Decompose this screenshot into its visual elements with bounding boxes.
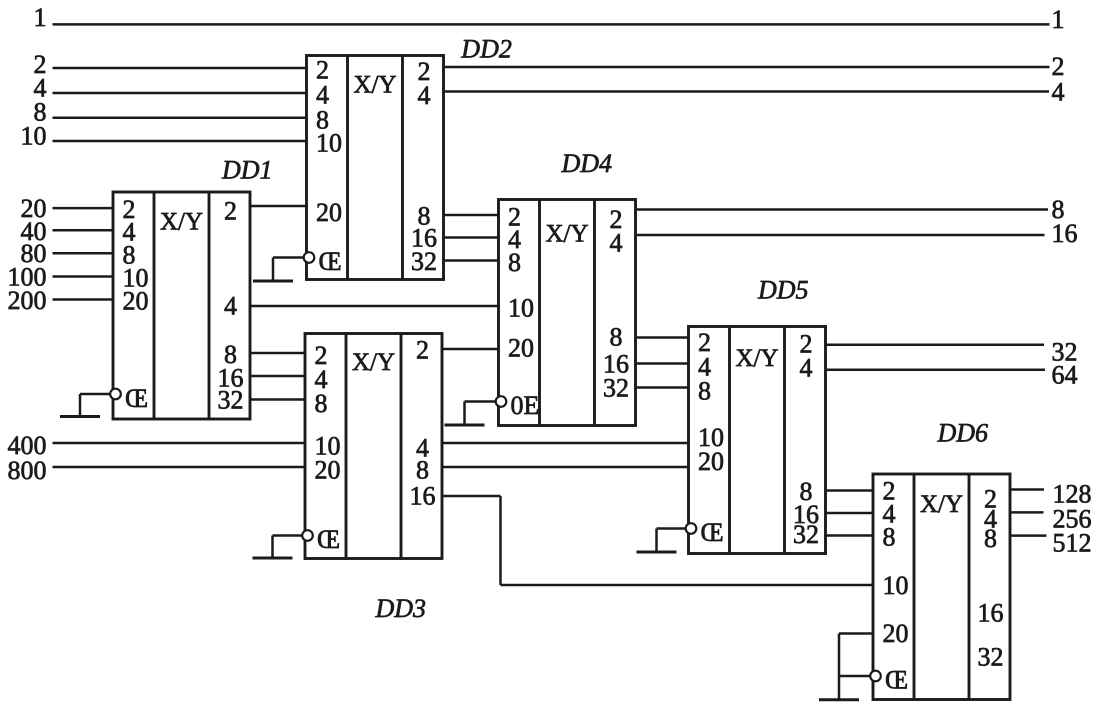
svg-text:Œ: Œ — [885, 666, 908, 695]
svg-text:20: 20 — [883, 619, 909, 648]
svg-text:Œ: Œ — [701, 518, 724, 547]
svg-text:8: 8 — [416, 456, 429, 485]
svg-text:4: 4 — [224, 292, 237, 321]
svg-text:800: 800 — [8, 456, 47, 485]
svg-text:2: 2 — [416, 336, 429, 365]
svg-text:2: 2 — [1052, 52, 1065, 81]
svg-text:20: 20 — [698, 447, 724, 476]
svg-text:8: 8 — [984, 524, 997, 553]
svg-text:8: 8 — [883, 523, 896, 552]
svg-text:X/Y: X/Y — [353, 72, 396, 99]
svg-text:DD3: DD3 — [375, 594, 427, 623]
svg-text:8: 8 — [698, 377, 711, 406]
svg-text:Œ: Œ — [125, 384, 148, 413]
svg-text:200: 200 — [8, 286, 47, 315]
svg-text:4: 4 — [800, 353, 813, 382]
svg-text:16: 16 — [410, 482, 436, 511]
svg-text:10: 10 — [508, 294, 534, 323]
svg-text:20: 20 — [508, 334, 534, 363]
svg-text:0E: 0E — [511, 391, 540, 420]
svg-text:512: 512 — [1053, 529, 1092, 558]
svg-text:1: 1 — [34, 3, 47, 32]
svg-text:20: 20 — [123, 287, 149, 316]
svg-text:DD4: DD4 — [561, 149, 613, 178]
svg-text:X/Y: X/Y — [735, 345, 778, 372]
svg-text:32: 32 — [978, 643, 1004, 672]
svg-text:1: 1 — [1052, 5, 1065, 34]
svg-text:32: 32 — [411, 247, 437, 276]
svg-text:Œ: Œ — [317, 525, 340, 554]
svg-text:X/Y: X/Y — [352, 349, 395, 376]
svg-text:20: 20 — [315, 456, 341, 485]
svg-text:DD1: DD1 — [221, 156, 273, 185]
svg-text:X/Y: X/Y — [545, 221, 588, 248]
svg-text:16: 16 — [978, 599, 1004, 628]
svg-text:16: 16 — [1052, 219, 1078, 248]
svg-text:10: 10 — [316, 128, 342, 157]
svg-text:DD5: DD5 — [757, 276, 809, 305]
svg-text:DD6: DD6 — [937, 419, 989, 448]
svg-text:Œ: Œ — [319, 247, 342, 276]
svg-text:32: 32 — [218, 386, 244, 415]
svg-text:10: 10 — [21, 122, 47, 151]
svg-text:10: 10 — [883, 571, 909, 600]
svg-text:X/Y: X/Y — [920, 491, 963, 518]
svg-text:20: 20 — [316, 198, 342, 227]
svg-text:8: 8 — [315, 389, 328, 418]
svg-text:32: 32 — [793, 520, 819, 549]
svg-text:DD2: DD2 — [460, 34, 512, 63]
svg-text:64: 64 — [1052, 360, 1078, 389]
svg-text:8: 8 — [610, 323, 623, 352]
svg-text:8: 8 — [508, 248, 521, 277]
svg-text:2: 2 — [224, 197, 237, 226]
svg-text:32: 32 — [603, 374, 629, 403]
svg-text:X/Y: X/Y — [160, 209, 203, 236]
svg-text:4: 4 — [418, 81, 431, 110]
svg-text:4: 4 — [1052, 78, 1065, 107]
svg-text:4: 4 — [610, 229, 623, 258]
